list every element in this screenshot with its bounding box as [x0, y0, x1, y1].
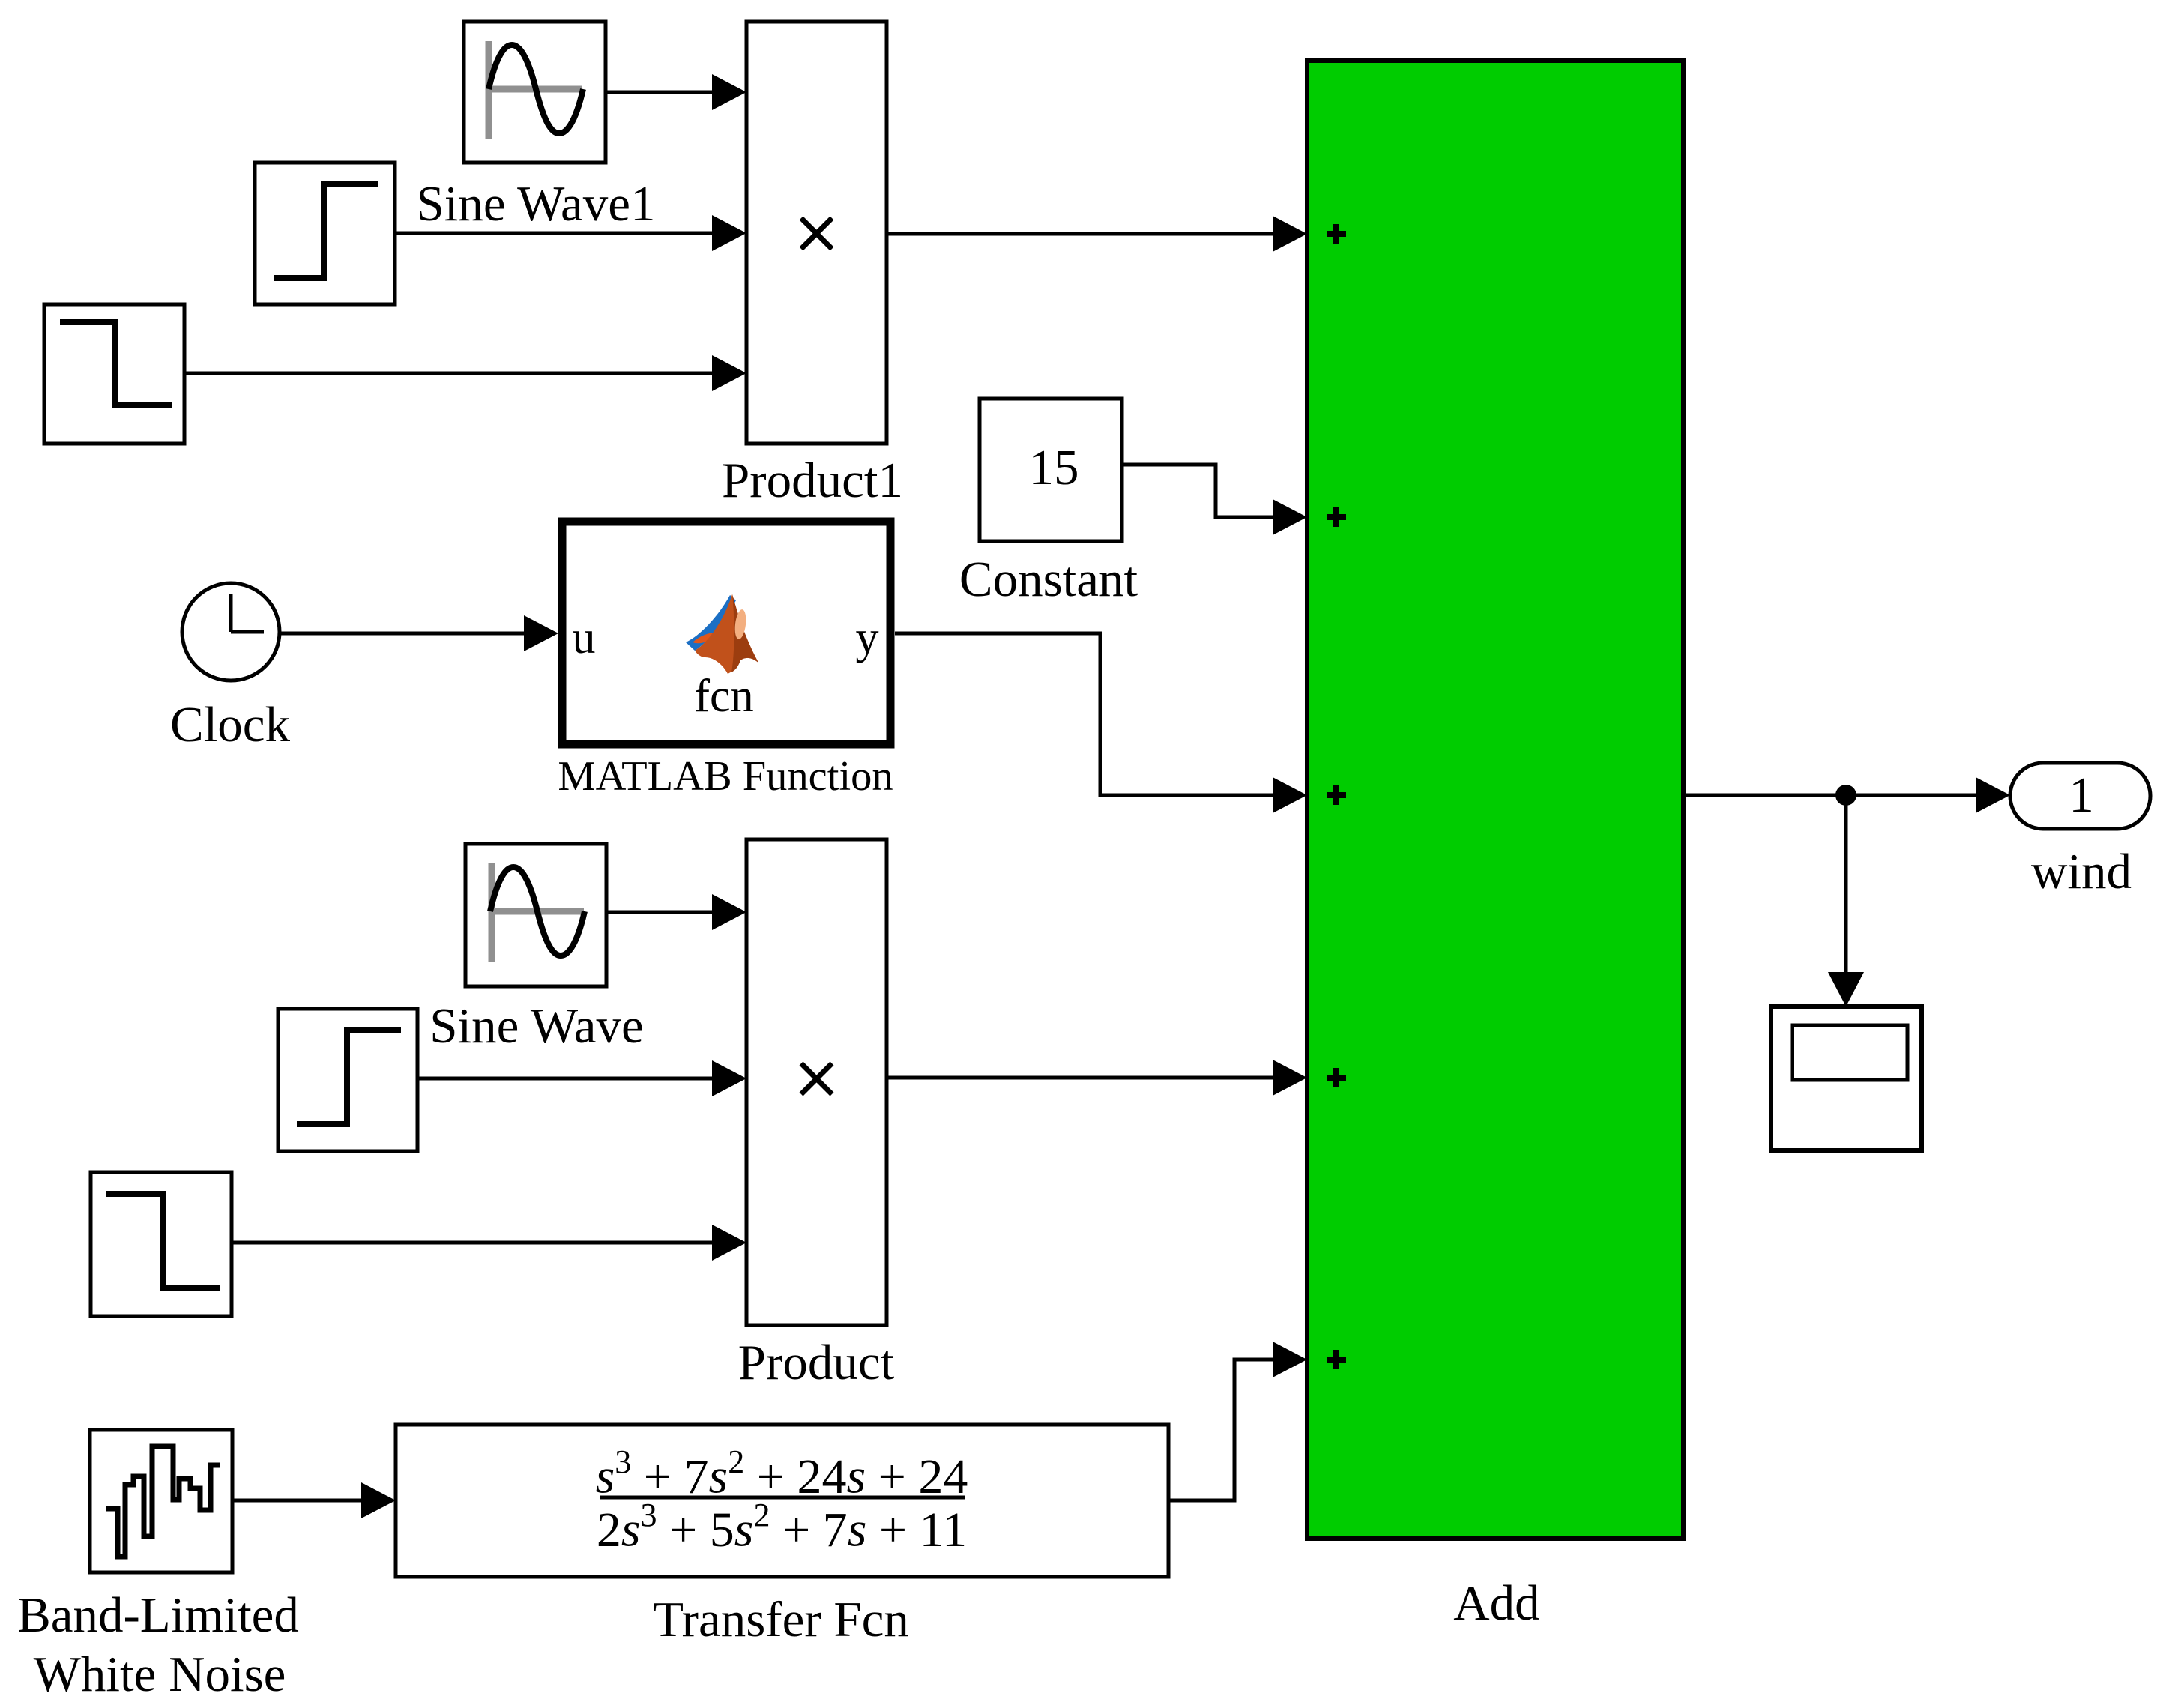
svg-text:fcn: fcn	[694, 671, 753, 722]
wire Step3 to Product in3	[232, 1225, 746, 1261]
wire Sine Wave to Product in1	[606, 894, 746, 930]
block Step (step-up source, top)	[255, 163, 395, 304]
wire Product to Add in4	[887, 1060, 1307, 1096]
svg-text:Clock: Clock	[170, 697, 291, 752]
block Product (multiplier, lower)	[746, 839, 887, 1325]
svg-text:Sine Wave1: Sine Wave1	[416, 176, 655, 232]
svg-text:Add: Add	[1453, 1575, 1539, 1631]
wire junction to Scope	[1828, 795, 1864, 1007]
wire Band-Limited White Noise to Transfer Fcn	[232, 1482, 396, 1518]
wire Step to Product1 in2	[395, 215, 746, 251]
svg-text:Product1: Product1	[722, 453, 903, 508]
svg-text:MATLAB Function: MATLAB Function	[558, 753, 893, 800]
block Band-Limited White Noise	[90, 1430, 232, 1572]
block Constant (value 15)	[980, 399, 1122, 541]
label Sine Wave	[429, 998, 644, 1054]
svg-text:15: 15	[1029, 440, 1079, 495]
svg-text:Band-Limited: Band-Limited	[17, 1587, 299, 1643]
svg-text:Constant: Constant	[959, 552, 1138, 607]
svg-text:s3 + 7s2 + 24s + 24: s3 + 7s2 + 24s + 24	[596, 1443, 968, 1504]
wire Add to outport wind	[1683, 777, 2010, 813]
wire Product1 to Add in1	[887, 216, 1307, 252]
block Transfer Fcn	[396, 1425, 1168, 1577]
svg-text:Sine Wave: Sine Wave	[429, 998, 644, 1054]
block Sine Wave (sine source icon, lower)	[465, 844, 606, 986]
block Scope	[1771, 1007, 1922, 1150]
svg-text:u: u	[573, 612, 596, 663]
label Constant	[959, 552, 1138, 607]
block Step3 (step-down source, lower left)	[91, 1172, 232, 1316]
svg-text:1: 1	[2069, 767, 2094, 823]
wire MATLAB Function y to Add in3	[895, 633, 1307, 813]
svg-text:White Noise: White Noise	[34, 1647, 286, 1702]
svg-text:Transfer Fcn: Transfer Fcn	[653, 1592, 909, 1647]
label wind	[2031, 844, 2132, 899]
label Band-Limited White Noise	[17, 1587, 299, 1702]
label Sine Wave1	[416, 176, 655, 232]
block Step1 (step-down source, left)	[44, 304, 184, 444]
svg-text:Product: Product	[738, 1335, 895, 1390]
node junction on output wire	[1835, 785, 1856, 806]
label Clock	[170, 697, 291, 752]
block Add (green sum block)	[1307, 61, 1683, 1539]
label Product1	[722, 453, 903, 508]
label Add	[1453, 1575, 1539, 1631]
wire Clock to MATLAB Function u	[280, 615, 558, 651]
block outport 1 (wind)	[2010, 763, 2150, 829]
label MATLAB Function	[558, 753, 893, 800]
block Product1 (multiplier)	[746, 22, 887, 444]
block Step2 (step-up source, middle)	[278, 1009, 417, 1151]
label Transfer Fcn	[653, 1592, 909, 1647]
label Product	[738, 1335, 895, 1390]
wire Constant to Add in2	[1122, 465, 1307, 535]
block Clock	[182, 583, 280, 681]
block MATLAB Function	[562, 522, 890, 744]
wire Step1 to Product1 in3	[184, 355, 746, 391]
wire Transfer Fcn to Add in5	[1168, 1342, 1307, 1500]
wire Sine Wave1 to Product1 in1	[606, 74, 746, 110]
block Sine Wave1 (sine source icon)	[464, 22, 606, 163]
wire Step2 to Product in2	[417, 1060, 746, 1096]
svg-text:wind: wind	[2031, 844, 2132, 899]
svg-text:y: y	[856, 612, 879, 663]
icon MATLAB membrane logo	[686, 594, 758, 674]
